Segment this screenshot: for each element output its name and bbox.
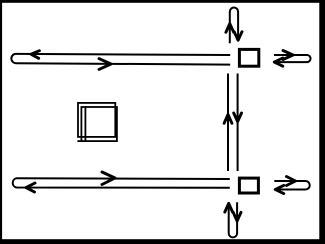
arrow down on vertical bus right line [234, 113, 242, 122]
arrow left on top bus upper line [31, 51, 39, 59]
buffer icon: inner vertical line [84, 107, 86, 141]
arrow left on top right loop lower line [274, 58, 283, 66]
arrow right on bottom bus upper line [102, 172, 115, 185]
latch box bottom right [239, 178, 258, 193]
wire: vertical bus between latches [227, 74, 229, 172]
wire: top turnaround loop above top latch [230, 8, 238, 44]
arrow up on bottom loop left leg [225, 203, 233, 212]
arrow right on top right loop upper line [283, 51, 293, 60]
arrow left on bottom bus lower line [26, 183, 35, 192]
buffer icon: back rectangle [78, 103, 115, 137]
arrow down on top loop right leg [234, 32, 242, 41]
arrow right on bottom right loop upper line [287, 177, 296, 186]
wire: top bus with left turnaround loop [11, 54, 230, 65]
latch box top right [239, 49, 258, 66]
buffer icon: front rectangle [81, 107, 117, 141]
arrow right on top bus lower line [99, 59, 111, 70]
arrow left on bottom right loop lower line [275, 185, 284, 193]
arrow up on vertical bus left line [224, 115, 232, 124]
buffer icon: bottom line left extension [77, 140, 81, 142]
arrow down on bottom loop right leg [233, 212, 241, 221]
arrow up on top loop left leg [226, 24, 234, 33]
wire: bottom turnaround loop below bottom latch [229, 202, 237, 237]
wire: bottom bus with left turnaround loop [13, 178, 230, 188]
wire: bottom right loop [274, 181, 309, 190]
wire: top right loop [274, 55, 311, 62]
